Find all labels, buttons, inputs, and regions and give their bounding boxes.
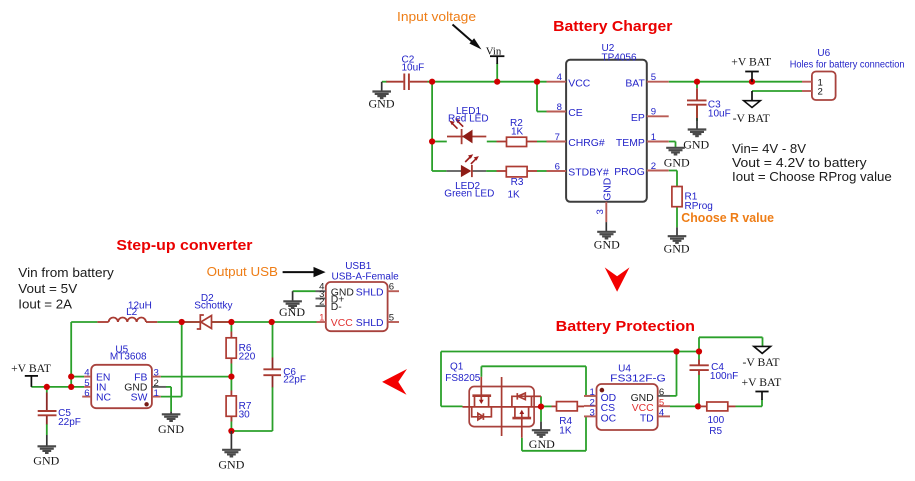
svg-text:Battery Protection: Battery Protection [556,318,695,335]
svg-text:CHRG#: CHRG# [568,138,605,149]
svg-text:100: 100 [708,415,725,426]
svg-text:7: 7 [555,132,560,143]
svg-text:GND: GND [664,242,690,256]
svg-text:R3: R3 [511,177,524,188]
svg-text:SHLD: SHLD [356,287,384,298]
svg-text:Choose R value: Choose R value [681,210,774,225]
svg-text:-V BAT: -V BAT [742,356,779,369]
svg-text:6: 6 [389,282,394,293]
svg-text:SHLD: SHLD [356,318,384,329]
svg-text:8: 8 [557,102,562,113]
svg-text:GND: GND [218,458,244,472]
svg-text:4: 4 [659,408,665,419]
svg-text:1: 1 [154,388,159,399]
svg-text:CE: CE [568,108,583,119]
svg-text:Iout = Choose RProg value: Iout = Choose RProg value [732,169,892,184]
svg-text:GND: GND [529,437,555,451]
svg-text:100nF: 100nF [710,371,738,382]
svg-text:Schottky: Schottky [194,301,232,312]
svg-text:Q1: Q1 [450,362,464,373]
svg-text:Vin from battery: Vin from battery [18,265,114,280]
svg-text:1K: 1K [508,190,521,201]
svg-text:MT3608: MT3608 [110,351,147,362]
svg-text:TEMP: TEMP [616,138,645,149]
svg-text:-V BAT: -V BAT [733,112,770,125]
svg-text:22pF: 22pF [283,375,306,386]
svg-text:6: 6 [84,388,89,399]
svg-text:VCC: VCC [331,318,353,329]
svg-text:OC: OC [601,413,617,424]
svg-text:Output USB: Output USB [207,264,278,279]
svg-text:+V BAT: +V BAT [11,362,51,375]
svg-text:GND: GND [369,97,395,111]
svg-text:Battery Charger: Battery Charger [553,18,672,35]
svg-text:GND: GND [158,422,184,436]
svg-text:5: 5 [389,313,394,324]
svg-text:1: 1 [651,132,656,143]
svg-text:Red LED: Red LED [448,113,489,124]
svg-text:1K: 1K [511,127,524,138]
svg-text:BAT: BAT [625,78,645,89]
svg-text:D-: D- [331,302,342,313]
svg-text:2: 2 [319,297,324,308]
svg-text:6: 6 [555,161,560,172]
svg-text:1K: 1K [559,426,572,437]
svg-text:TD: TD [640,413,654,424]
svg-text:5: 5 [651,72,656,83]
svg-text:VCC: VCC [568,78,590,89]
svg-text:STDBY#: STDBY# [568,168,609,179]
svg-text:22pF: 22pF [58,417,81,428]
svg-text:3: 3 [590,408,595,419]
svg-text:GND: GND [594,238,620,252]
svg-text:TP4056: TP4056 [602,53,637,64]
svg-text:4: 4 [84,367,90,378]
svg-text:GND: GND [33,453,59,467]
svg-text:220: 220 [239,352,256,363]
svg-text:GND: GND [683,137,709,151]
svg-text:RProg: RProg [685,201,713,212]
svg-text:GND: GND [279,305,305,319]
svg-text:Holes for battery connection: Holes for battery connection [790,60,905,71]
svg-text:Vout = 5V: Vout = 5V [18,281,77,296]
svg-text:30: 30 [239,410,251,421]
svg-text:FS312F-G: FS312F-G [610,374,666,385]
svg-text:3: 3 [595,209,606,214]
svg-text:+V BAT: +V BAT [741,376,781,389]
svg-text:U6: U6 [817,48,830,59]
svg-text:Iout = 2A: Iout = 2A [18,296,72,311]
svg-text:Input voltage: Input voltage [397,9,476,24]
svg-text:USB1: USB1 [345,261,372,272]
svg-text:GND: GND [664,156,690,170]
svg-text:Step-up converter: Step-up converter [116,237,252,254]
svg-text:Vout = 4.2V to battery: Vout = 4.2V to battery [732,155,867,170]
svg-text:Vin= 4V - 8V: Vin= 4V - 8V [732,141,806,156]
svg-text:GND: GND [603,178,614,201]
svg-text:PROG: PROG [614,167,645,178]
svg-text:2: 2 [818,87,823,98]
svg-text:10uF: 10uF [708,108,731,119]
svg-text:2: 2 [651,161,656,172]
svg-text:4: 4 [557,72,563,83]
svg-text:10uF: 10uF [402,63,425,74]
svg-text:Vin: Vin [486,45,502,57]
svg-text:SW: SW [131,393,148,404]
svg-text:1: 1 [319,313,324,324]
svg-text:Green LED: Green LED [444,189,494,200]
svg-text:EP: EP [631,113,645,124]
svg-text:9: 9 [651,107,656,118]
svg-text:L2: L2 [126,307,138,318]
svg-text:3: 3 [154,367,159,378]
svg-text:NC: NC [96,393,112,404]
svg-text:FS8205: FS8205 [445,373,480,384]
svg-text:R5: R5 [709,426,722,437]
svg-text:+V BAT: +V BAT [731,56,771,69]
